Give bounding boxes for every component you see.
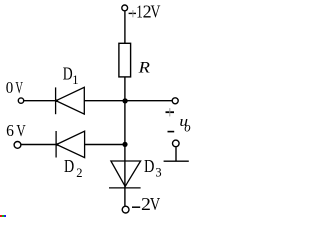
svg-text:0: 0 [6,78,14,97]
svg-text:R: R [137,58,149,77]
svg-text:D: D [63,64,73,84]
svg-text:V: V [151,2,161,22]
svg-text:D: D [144,156,154,176]
svg-text:2: 2 [76,166,82,180]
svg-text:D: D [64,156,74,176]
svg-text:V: V [150,194,160,214]
svg-text:V: V [16,121,26,140]
svg-text:V: V [15,78,23,97]
svg-text:o: o [184,121,190,136]
svg-text:6: 6 [6,121,14,140]
svg-text:3: 3 [155,166,161,180]
svg-text:1: 1 [72,73,78,87]
